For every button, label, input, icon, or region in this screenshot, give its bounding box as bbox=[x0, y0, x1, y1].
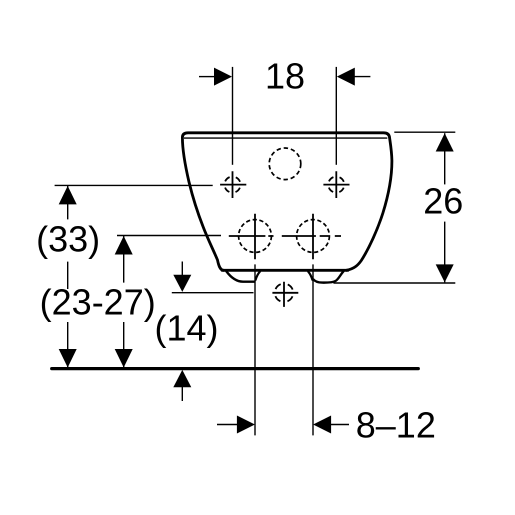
upper-left mounting hole dashed circle bbox=[225, 177, 241, 193]
dim (14): lower up-arrow tail bbox=[181, 387, 183, 402]
floor line bbox=[52, 367, 419, 370]
dim 8-12: left arrow bbox=[217, 424, 237, 426]
dim (23-27): bottom arrow bbox=[115, 349, 133, 368]
body outline (bidet rear view) bbox=[182, 133, 392, 270]
upper-left mounting hole crosshair bbox=[220, 171, 246, 198]
dim 8-12: right arrow bbox=[331, 424, 349, 426]
dim 18: right extension line bbox=[335, 67, 337, 165]
mid-right dashed circle bbox=[297, 220, 330, 253]
dim (23-27): dimension line segments bbox=[123, 236, 125, 368]
dim 8-12: right extension line bbox=[312, 264, 314, 435]
svg-text:8–12: 8–12 bbox=[356, 405, 436, 446]
svg-text:(33): (33) bbox=[36, 219, 100, 260]
upper-right mounting hole crosshair bbox=[323, 171, 349, 198]
dim 26: dimension line upper segment bbox=[444, 133, 446, 184]
bottom hole dashed circle bbox=[275, 284, 293, 302]
dim 18: right arrow bbox=[354, 76, 370, 78]
svg-text:(23-27): (23-27) bbox=[40, 282, 156, 323]
body bottom line bbox=[222, 269, 348, 272]
dim (33): top arrow bbox=[59, 186, 77, 205]
mid-left crosshair bbox=[229, 214, 274, 259]
dim (23-27): top arrow bbox=[115, 236, 133, 255]
dim 26: dimension line lower segment bbox=[444, 222, 446, 283]
body inner rim thin line bbox=[184, 137, 387, 139]
dim 18: left extension line bbox=[232, 67, 234, 165]
dim 18: left arrow bbox=[199, 76, 215, 78]
inner left fillet bbox=[256, 272, 260, 280]
svg-text:18: 18 bbox=[265, 56, 305, 97]
dim (14): top boundary line bbox=[172, 292, 254, 294]
dim 26: bottom extension line bbox=[333, 282, 455, 284]
dim 26: top arrow bbox=[436, 133, 454, 151]
large top dashed circle bbox=[269, 148, 301, 180]
svg-text:26: 26 bbox=[423, 181, 463, 222]
dim (33): top extension line bbox=[55, 184, 213, 186]
right bottom hook bbox=[314, 271, 344, 282]
svg-text:(14): (14) bbox=[154, 308, 218, 349]
dim (33): dimension line segments bbox=[67, 186, 69, 368]
dim (14): upper down-arrow tail bbox=[181, 262, 183, 276]
mid-right crosshair bbox=[282, 214, 341, 259]
bottom hole crosshair bbox=[272, 282, 298, 307]
dim 8-12: left extension line bbox=[254, 264, 256, 435]
upper-right mounting hole dashed circle bbox=[328, 177, 344, 193]
dim (23-27): top extension line bbox=[117, 235, 221, 237]
left bottom hook bbox=[227, 272, 255, 282]
dim 26: bottom arrow bbox=[436, 264, 454, 282]
dim (33): bottom arrow bbox=[59, 349, 77, 368]
dim 26: top extension line bbox=[394, 131, 455, 133]
dim (14): upper down-arrow bbox=[173, 275, 191, 292]
dim (14): lower up-arrow bbox=[173, 370, 191, 387]
mid-left dashed circle bbox=[239, 220, 272, 253]
inner right fillet bbox=[308, 272, 312, 280]
